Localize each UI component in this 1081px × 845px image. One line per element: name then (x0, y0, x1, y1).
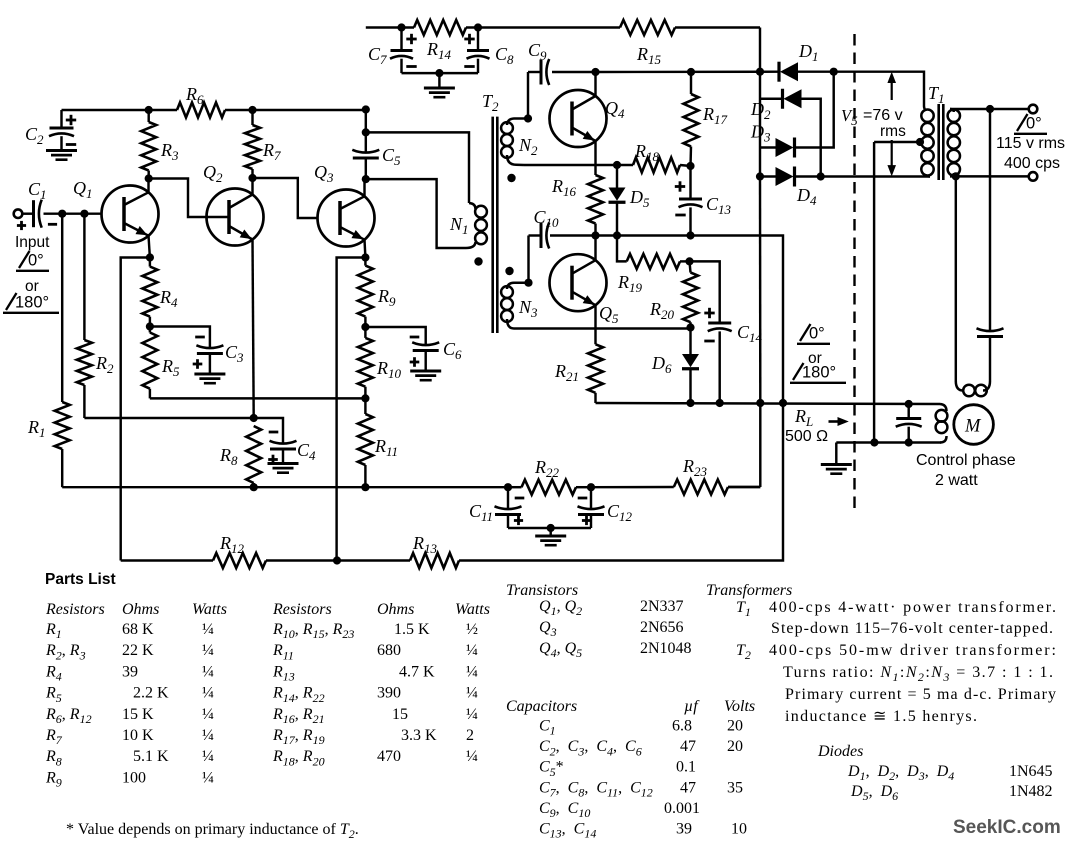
diode D5 (609, 165, 626, 236)
label R9 (377, 286, 396, 309)
wire C9-Q4 base (527, 72, 529, 119)
transistor Q1 (102, 179, 159, 258)
diode D6 (682, 328, 699, 404)
label rms (880, 123, 906, 140)
svg-text:47: 47 (680, 779, 696, 796)
node rail-D1 (756, 68, 764, 76)
capacitor C13 (675, 166, 703, 236)
inductor N3 winding (501, 283, 690, 329)
label Input (15, 234, 50, 251)
ground below C6 (410, 371, 441, 380)
node R7-Q2 collector (248, 174, 256, 182)
label 500 ohm (785, 428, 828, 445)
node feedback drop (779, 399, 787, 407)
svg-text:Watts: Watts (192, 601, 227, 618)
svg-text:100: 100 (122, 769, 146, 786)
wire C10-Q5 base (527, 236, 529, 283)
capacitor C7 (390, 28, 417, 74)
svg-text:2 watt: 2 watt (935, 472, 978, 489)
label input angle 180 (3, 293, 59, 313)
label C2 (25, 124, 44, 147)
svg-text:2N1048: 2N1048 (640, 640, 692, 657)
label R18 (634, 141, 660, 164)
label R17 (702, 104, 728, 127)
node motor cap bottom (905, 438, 913, 446)
wire Q1 emitter feedback (121, 258, 150, 561)
ground below R14 (424, 88, 455, 97)
wire main bus (62, 486, 760, 489)
svg-text:2N337: 2N337 (640, 598, 684, 615)
node C14 bottom (716, 399, 724, 407)
resistor R20 (683, 261, 698, 327)
svg-text:2.2 K: 2.2 K (133, 685, 169, 702)
label mid or (808, 350, 822, 367)
svg-text:10 K: 10 K (122, 727, 154, 744)
svg-text:5.1 K: 5.1 K (133, 748, 169, 765)
label Q5 (599, 303, 619, 326)
wire center tap down (873, 142, 875, 443)
svg-text:¼: ¼ (202, 727, 214, 744)
output terminal top (1029, 105, 1038, 114)
svg-text:22 K: 22 K (122, 642, 154, 659)
table1 rows (45, 621, 214, 790)
label mid angle 0 (797, 324, 830, 344)
wire C11-C12 bottom (508, 524, 591, 535)
svg-text:20: 20 (727, 718, 743, 735)
label Q4 (605, 98, 625, 121)
svg-text:400 cps: 400 cps (1004, 155, 1060, 172)
wire N1 top (366, 132, 469, 203)
capacitor C2 (49, 110, 76, 150)
label R3 (160, 140, 179, 163)
label output angle 0 (1014, 114, 1047, 134)
svg-text:Transformers: Transformers (706, 582, 792, 599)
capacitor C14 (704, 308, 731, 403)
svg-text:0.1: 0.1 (676, 759, 696, 776)
node input-R2 (80, 210, 88, 218)
table1 header (45, 601, 227, 618)
wire D1 to T1 (834, 72, 924, 106)
svg-text:Volts: Volts (724, 698, 755, 715)
svg-text:2N656: 2N656 (640, 619, 684, 636)
svg-text:35: 35 (727, 779, 743, 796)
node C7 top (397, 23, 405, 31)
node R16-Q5 collector (591, 231, 599, 239)
svg-text:½: ½ (466, 621, 478, 638)
svg-text:rms: rms (880, 123, 906, 140)
wire R19-C14 (690, 261, 720, 322)
capacitors rows (539, 718, 747, 841)
svg-text:Transistors: Transistors (506, 582, 578, 599)
inductor N1 winding (466, 203, 487, 248)
svg-text:¼: ¼ (202, 642, 214, 659)
svg-text:Resistors: Resistors (45, 601, 105, 618)
node rail-drop (362, 105, 370, 113)
svg-text:Diodes: Diodes (817, 743, 863, 760)
label T1 (928, 83, 945, 106)
transistor Q5 (550, 236, 607, 345)
label R5 (161, 356, 180, 379)
wire T1 secondary bottom (950, 175, 1029, 177)
resistor R1 (55, 214, 70, 488)
node R20-D6-N3 (686, 323, 694, 331)
label R12 (219, 533, 245, 556)
svg-text:¼: ¼ (466, 748, 478, 765)
label R22 (534, 457, 560, 480)
label N2 (518, 135, 538, 158)
wire top supply rail (366, 28, 760, 72)
resistor R5 (142, 327, 365, 399)
label N1 (449, 214, 469, 237)
resistor R16 (588, 165, 603, 236)
svg-text:¼: ¼ (466, 663, 478, 680)
diode D3 (760, 72, 834, 158)
node R10-R11 (361, 394, 369, 402)
resistor R23 (674, 480, 761, 495)
wire Q3 emitter feedback (337, 258, 366, 561)
label R14 (426, 39, 452, 62)
svg-text:Control phase: Control phase (916, 452, 1016, 469)
node input-R1 (58, 210, 66, 218)
node rail-R3 (145, 106, 153, 114)
node D2-D4 (817, 172, 825, 180)
label C7 (368, 44, 387, 67)
node C8 top (474, 23, 482, 31)
wire to C6 (365, 327, 425, 346)
ground below C2 (46, 151, 77, 160)
node motor cap top (905, 400, 913, 408)
node R9-R10 (361, 323, 369, 331)
wire T1 center tap (874, 138, 924, 146)
wire reference branch right lower (989, 337, 991, 382)
resistor R10 (358, 327, 373, 398)
label D5 (629, 187, 650, 210)
label C1 (28, 179, 47, 202)
resistor R21 (588, 344, 603, 403)
label R11 (374, 436, 398, 459)
node C12 top (587, 483, 595, 491)
svg-text:15: 15 (392, 706, 408, 723)
label C8 (495, 44, 514, 67)
wire C9 row right (596, 70, 780, 73)
svg-text:Ohms: Ohms (122, 601, 159, 618)
label R16 (551, 176, 577, 199)
node N1 top tap (362, 128, 370, 136)
svg-text:¼: ¼ (466, 706, 478, 723)
svg-text:SeekIC.com: SeekIC.com (953, 817, 1061, 838)
svg-text:6.8: 6.8 (672, 718, 692, 735)
svg-text:3.3 K: 3.3 K (401, 727, 437, 744)
label input angle 0 (16, 251, 49, 271)
label R6 (185, 84, 204, 107)
capacitor C9 (528, 59, 596, 85)
resistor R19 (617, 236, 690, 269)
label RL (794, 406, 813, 429)
ground below C3 (194, 374, 225, 383)
label V5 (841, 106, 903, 128)
wire T1 secondary top (950, 108, 1029, 110)
resistor R18 (633, 158, 691, 173)
wire lower bus (596, 403, 941, 404)
transformer T1 core (939, 104, 944, 180)
node Q5 base (524, 279, 532, 287)
svg-text:115 v rms: 115 v rms (996, 135, 1065, 152)
label C14 (737, 322, 763, 345)
output terminal bottom (1029, 172, 1038, 181)
transistors header (506, 582, 578, 599)
capacitor C11 (495, 487, 525, 528)
node secondary top tap (986, 105, 994, 113)
svg-text:0°: 0° (1026, 115, 1042, 133)
svg-text:400-cps 50-mw driver transform: 400-cps 50-mw driver transformer: (769, 642, 1056, 659)
node D6 bottom (686, 399, 694, 407)
wire to C4 (254, 418, 283, 444)
label C6 (443, 339, 462, 362)
transistor Q3 (318, 179, 375, 257)
svg-text:Capacitors: Capacitors (506, 698, 577, 715)
resistor R11 (358, 398, 373, 487)
svg-text:¼: ¼ (202, 748, 214, 765)
svg-text:¼: ¼ (202, 621, 214, 638)
svg-text:¼: ¼ (202, 685, 214, 702)
node C13 bottom (686, 231, 694, 239)
svg-text:180°: 180° (802, 364, 836, 382)
node R3-Q1 collector (145, 174, 153, 182)
ground below C4 (268, 464, 299, 473)
resistor R17 (684, 72, 699, 166)
resistor R22 (508, 480, 591, 495)
svg-text:180°: 180° (15, 294, 49, 312)
node Q2 emitter-R8 (250, 414, 258, 422)
node R8 bus (250, 483, 258, 491)
svg-text:¼: ¼ (202, 769, 214, 786)
svg-text:Resistors: Resistors (272, 601, 332, 618)
svg-text:Step-down 115–76-volt center-t: Step-down 115–76-volt center-tapped. (771, 620, 1053, 637)
wire motor return (836, 441, 941, 443)
label D2 (750, 99, 771, 122)
capacitor C3 (193, 337, 224, 373)
label T2 (482, 91, 499, 114)
label R19 (617, 272, 643, 295)
label R13 (412, 533, 438, 556)
svg-text:0°: 0° (809, 325, 825, 343)
svg-text:400-cps 4-watt· power transfor: 400-cps 4-watt· power transformer. (769, 599, 1056, 616)
footnote (66, 821, 359, 841)
svg-text:0.001: 0.001 (664, 800, 700, 817)
svg-text:Input: Input (15, 234, 50, 251)
svg-text:2: 2 (466, 727, 474, 744)
label C13 (706, 194, 732, 217)
node bridge drop (756, 399, 764, 407)
svg-text:680: 680 (377, 642, 401, 659)
transformer T2 core (493, 117, 498, 333)
label D1 (798, 41, 819, 64)
ground below C11-C12 (535, 536, 566, 545)
node N2-D5-R18 (613, 161, 621, 169)
diode D4 (760, 167, 930, 187)
svg-text:68 K: 68 K (122, 621, 154, 638)
svg-text:500 Ω: 500 Ω (785, 428, 828, 445)
node return-centertap (870, 438, 878, 446)
wire mid bus (550, 236, 783, 404)
node Q4 collector-C9 (591, 68, 599, 76)
table2 rows (272, 621, 478, 768)
ground RL (821, 465, 852, 474)
label R4 (159, 287, 178, 310)
wire mid rail (62, 109, 366, 111)
inductor T1 secondary (948, 109, 960, 176)
svg-text:390: 390 (377, 685, 401, 702)
node D5 bottom (613, 231, 621, 239)
parts list title (45, 571, 116, 588)
node Q3 emitter (361, 253, 369, 261)
arrow V5 (887, 72, 896, 177)
label D3 (750, 122, 771, 145)
node C11 top (504, 483, 512, 491)
motor winding (936, 404, 948, 443)
table2 header (272, 601, 490, 618)
label C9 (528, 40, 547, 63)
resistor R3 (141, 110, 156, 179)
node D4 left (756, 172, 764, 180)
capacitor C10 (529, 223, 550, 249)
node N2 phase dot (507, 174, 515, 182)
svg-text:15 K: 15 K (122, 706, 154, 723)
label R15 (636, 44, 662, 67)
motor M (954, 405, 994, 445)
node R17 top (687, 68, 695, 76)
node R18-R17-C13 (686, 162, 694, 170)
capacitor C5 (352, 110, 379, 180)
node R4-R5 (146, 322, 154, 330)
capacitor C6 (410, 337, 440, 370)
capacitor C12 (578, 487, 605, 528)
node R11 bus (361, 483, 369, 491)
resistor R9 (358, 258, 373, 328)
svg-text:Ohms: Ohms (377, 601, 414, 618)
label C4 (297, 440, 316, 463)
capacitor C8 (464, 28, 489, 74)
wire reference branch left (955, 176, 957, 381)
node Q3 feedback (333, 556, 341, 564)
label control phase (916, 452, 1016, 469)
svg-text:¼: ¼ (202, 706, 214, 723)
wire reference branch right upper (989, 109, 991, 332)
label D6 (651, 353, 672, 376)
capacitor C1 (17, 200, 102, 230)
node Q4 base (524, 114, 532, 122)
svg-text:=76 v: =76 v (863, 107, 903, 124)
svg-text:1.5 K: 1.5 K (394, 621, 430, 638)
transformers header (706, 582, 792, 599)
svg-text:¼: ¼ (466, 642, 478, 659)
wire feedback line (121, 403, 783, 561)
label N3 (518, 297, 538, 320)
reference capacitor (977, 328, 1004, 336)
wire N2 bottom row (524, 164, 633, 166)
capacitors header (506, 698, 755, 715)
label D4 (796, 185, 817, 208)
label R20 (649, 299, 675, 322)
inductor N2 winding (501, 119, 528, 166)
svg-text:M: M (964, 417, 982, 437)
svg-text:Parts List: Parts List (45, 571, 116, 588)
label R23 (682, 456, 708, 479)
label R1 (27, 417, 46, 440)
label R21 (554, 361, 579, 384)
capacitor C4 (268, 432, 296, 464)
node Q1 emitter (146, 253, 154, 261)
resistor R7 (245, 110, 260, 178)
label 2 watt (935, 472, 978, 489)
transformers text (736, 599, 1056, 725)
node secondary bottom tap (952, 172, 960, 180)
wire Q1-Q2 coupling (149, 179, 228, 218)
svg-text:Watts: Watts (455, 601, 490, 618)
diodes rows (847, 763, 1053, 803)
transistors rows (539, 598, 692, 660)
svg-text:47: 47 (680, 738, 696, 755)
resistor R14 (414, 20, 466, 35)
diode D2 (760, 89, 821, 177)
label C12 (607, 501, 633, 524)
label C3 (225, 342, 244, 365)
separator dashed line (853, 34, 855, 512)
label C5 (382, 145, 401, 168)
input terminal (14, 209, 23, 218)
resistor R2 (77, 214, 254, 418)
diodes header (817, 743, 863, 760)
diode D1 (779, 62, 834, 82)
label Q3 (314, 162, 334, 185)
transistor Q2 (207, 178, 264, 418)
label R8 (219, 445, 238, 468)
arrow RL (829, 417, 849, 426)
label mid angle 180 (790, 363, 846, 383)
wire C7-C8 bottom (402, 69, 479, 87)
wire N1 bottom (366, 179, 466, 248)
svg-text:39: 39 (676, 821, 692, 838)
resistor R4 (142, 258, 157, 327)
node rail-R7 (248, 106, 256, 114)
label Q2 (203, 162, 223, 185)
svg-text:1N645: 1N645 (1009, 763, 1053, 780)
node R19-R20 (685, 257, 693, 265)
wire ground jog (835, 443, 837, 464)
label R10 (376, 358, 402, 381)
resistor R6 (177, 103, 225, 118)
node Q3 collector (362, 175, 370, 183)
node N3 phase dot (505, 267, 513, 275)
label 400 cps (1004, 155, 1060, 172)
svg-text:39: 39 (122, 663, 138, 680)
label C10 (534, 207, 560, 230)
reference winding (956, 381, 990, 396)
svg-text:or: or (25, 278, 39, 295)
wire Q2-Q3 coupling (253, 178, 319, 218)
resistor R15 (620, 20, 675, 35)
svg-text:1N482: 1N482 (1009, 783, 1053, 800)
wire to C3 (150, 327, 210, 349)
watermark SeekIC (953, 817, 1061, 838)
svg-text:470: 470 (377, 748, 401, 765)
svg-text:0°: 0° (28, 252, 44, 270)
motor capacitor (896, 404, 922, 443)
label input or (25, 278, 39, 295)
svg-text:¼: ¼ (466, 685, 478, 702)
node D1 out (830, 68, 838, 76)
svg-text:Primary current = 5 ma d-c. Pr: Primary current = 5 ma d-c. Primary (785, 686, 1056, 703)
